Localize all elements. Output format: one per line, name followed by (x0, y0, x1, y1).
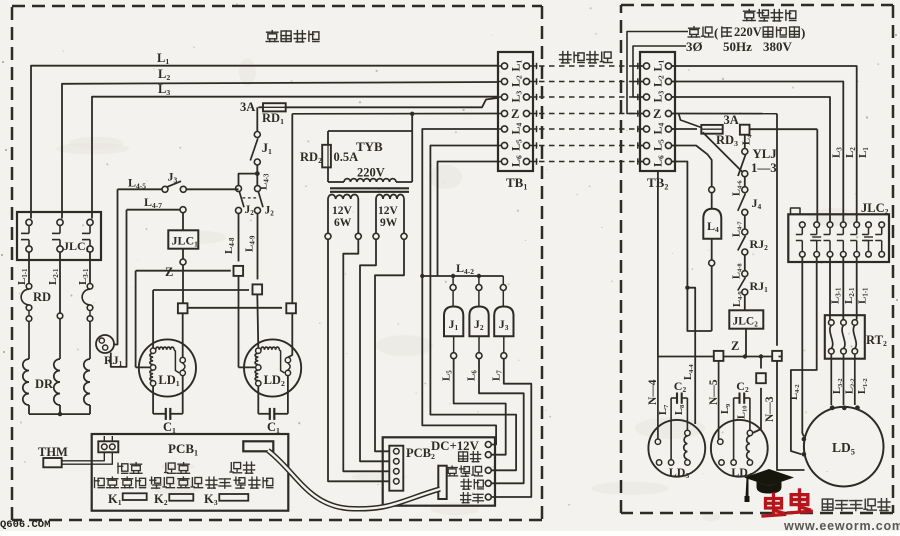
svg-text:220V: 220V (357, 166, 385, 180)
svg-text:3A: 3A (240, 100, 255, 114)
svg-text:3A: 3A (724, 113, 739, 127)
svg-text:TYB: TYB (356, 139, 383, 154)
svg-text:JLC2: JLC2 (861, 201, 889, 216)
svg-text:6W: 6W (334, 217, 352, 229)
svg-text:N—5: N—5 (708, 379, 720, 405)
svg-text:RD: RD (33, 290, 51, 304)
svg-text:): ) (801, 25, 805, 40)
svg-text:N—4: N—4 (647, 379, 659, 405)
svg-text:50Hz: 50Hz (723, 39, 752, 54)
svg-text:Z: Z (653, 107, 661, 121)
svg-text:(: ( (714, 25, 718, 40)
svg-text:PCB1: PCB1 (168, 441, 198, 457)
svg-text:12V: 12V (332, 205, 353, 217)
svg-text:www.eeworm.com: www.eeworm.com (783, 519, 900, 531)
svg-text:JLC1: JLC1 (172, 234, 199, 249)
svg-text:Z: Z (165, 265, 173, 279)
svg-text:3Ø: 3Ø (686, 39, 703, 54)
svg-text:N—3: N—3 (764, 396, 776, 422)
svg-text:DR: DR (35, 377, 54, 391)
svg-text:YLJ: YLJ (753, 147, 778, 161)
svg-text:1—3: 1—3 (751, 161, 777, 175)
svg-text:0.5A: 0.5A (334, 150, 359, 164)
svg-text:Q606.COM: Q606.COM (0, 519, 50, 531)
svg-text:9W: 9W (380, 217, 398, 229)
svg-text:Z: Z (511, 107, 519, 121)
svg-text:JLC1: JLC1 (63, 239, 90, 254)
svg-text:380V: 380V (763, 39, 793, 54)
svg-text:Z: Z (731, 339, 739, 353)
svg-text:THM: THM (38, 445, 68, 459)
svg-text:DC+12V: DC+12V (431, 439, 480, 453)
svg-text:220V: 220V (734, 25, 762, 39)
svg-text:12V: 12V (378, 205, 399, 217)
